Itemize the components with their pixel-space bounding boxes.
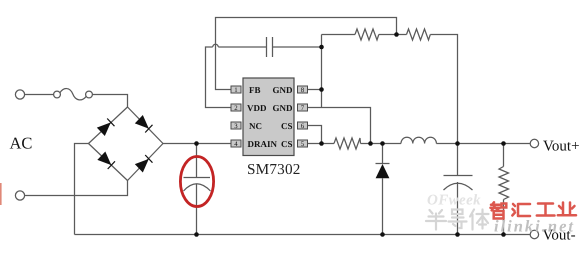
capacitor C2 (VDD bypass)	[267, 37, 273, 57]
svg-text:4: 4	[234, 141, 238, 148]
pin numbers	[234, 87, 305, 148]
bottom rail	[75, 234, 531, 236]
diode D1 top-left	[97, 118, 115, 136]
diode D2 top-right	[135, 115, 153, 133]
wire pin6	[308, 126, 322, 144]
pin 4 box	[231, 140, 241, 147]
wire	[25, 181, 128, 196]
pin 6 box	[298, 122, 308, 129]
char ban	[426, 210, 446, 230]
svg-text:8: 8	[301, 87, 305, 94]
wire bridge + node to DRAIN	[163, 143, 231, 145]
svg-text:AC: AC	[10, 134, 33, 153]
svg-text:FB: FB	[249, 85, 261, 95]
svg-text:GND: GND	[273, 85, 294, 95]
svg-text:5: 5	[301, 141, 305, 148]
fuse F1	[54, 89, 93, 100]
AC bottom terminal	[15, 191, 24, 200]
wire	[92, 95, 127, 108]
wire pin5 + resistor R3 (sense)	[308, 143, 335, 145]
bridge diodes (black)	[97, 115, 153, 173]
svg-text:CS: CS	[281, 121, 293, 131]
resistor R2 (divider lower)	[407, 29, 431, 40]
svg-text:2: 2	[234, 105, 238, 112]
diode D4 bottom-right	[135, 155, 153, 173]
resistor R1 (divider upper)	[322, 34, 356, 36]
node load top	[501, 141, 506, 146]
pin 2 box	[231, 104, 241, 111]
node cap1 bottom	[194, 232, 199, 237]
svg-text:CS: CS	[281, 139, 293, 149]
node diode top	[380, 141, 385, 146]
node pin6/pin5	[319, 141, 324, 146]
wire inductor to Vout+	[436, 143, 530, 145]
svg-text:7: 7	[301, 105, 305, 112]
char ye	[558, 203, 576, 216]
AC top terminal	[15, 90, 24, 99]
char ti	[470, 210, 489, 230]
svg-text:6: 6	[301, 123, 305, 130]
wire VDD with crossover hop	[206, 47, 232, 108]
wire gnd vertical	[321, 35, 323, 108]
node gnd pin8	[319, 87, 324, 92]
watermark left edge red streak	[0, 183, 2, 205]
svg-text:SM7302: SM7302	[247, 161, 301, 178]
svg-text:DRAIN: DRAIN	[248, 139, 278, 149]
watermark 智汇工业 (red CJK, drawn)	[491, 202, 577, 218]
wire cap to gnd vertical	[273, 46, 322, 48]
pin 1 box	[231, 86, 241, 93]
pin 7 box	[298, 104, 308, 111]
diode D3 bottom-left	[97, 151, 115, 169]
wire bridge left corner to bottom rail	[75, 144, 89, 235]
node output	[455, 141, 460, 146]
watermark 半导体 (gray CJK, drawn)	[426, 210, 489, 230]
char zhi	[491, 202, 507, 218]
svg-text:OFweek: OFweek	[427, 193, 481, 209]
node pin7	[368, 141, 373, 146]
char dao	[449, 210, 467, 229]
red annotation ellipse	[180, 157, 213, 207]
node cap2/gnd	[319, 45, 324, 50]
wire FB to top rail and divider mid	[216, 18, 397, 90]
svg-text:ilinki.net: ilinki.net	[494, 217, 575, 236]
capacitor C3 (output)	[444, 144, 473, 235]
Vout- terminal	[530, 230, 538, 238]
char gong	[537, 204, 555, 216]
capacitor C1 (bulk, inside red circle)	[184, 144, 211, 235]
wire	[25, 94, 54, 96]
svg-text:3: 3	[234, 123, 238, 130]
diode D5 (freewheel)	[376, 144, 390, 235]
svg-text:1: 1	[234, 87, 237, 94]
Vout+ terminal	[530, 139, 538, 147]
wire pin8	[308, 89, 322, 91]
inductor L1	[401, 137, 436, 143]
node load bottom	[501, 232, 506, 237]
char hui	[512, 204, 530, 216]
pin 8 box	[298, 86, 308, 93]
bridge rectifier diamond	[89, 107, 164, 181]
node cap3 bottom	[455, 232, 460, 237]
pin 5 box	[298, 140, 308, 147]
node diode bottom	[380, 232, 385, 237]
pin 3 box	[231, 122, 241, 129]
wire pin7	[308, 108, 371, 144]
svg-text:GND: GND	[273, 103, 294, 113]
svg-text:VDD: VDD	[247, 103, 267, 113]
svg-text:Vout+: Vout+	[543, 139, 580, 155]
node divider mid	[394, 32, 399, 37]
svg-text:NC: NC	[249, 121, 262, 131]
node drain	[194, 141, 199, 146]
resistor R4 (load, vertical)	[499, 144, 509, 235]
pin labels	[247, 85, 293, 149]
wire to inductor	[383, 143, 402, 145]
IC U1 SM7302 body	[231, 78, 308, 156]
